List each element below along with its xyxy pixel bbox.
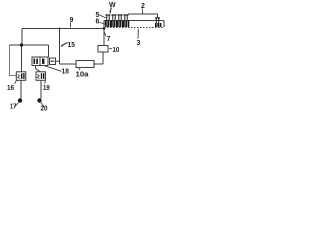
svg-text:20: 20 <box>41 106 48 113</box>
svg-text:7: 7 <box>107 36 111 43</box>
svg-text:3: 3 <box>137 40 141 47</box>
svg-text:9: 9 <box>70 17 74 24</box>
svg-text:10a: 10a <box>76 72 89 79</box>
svg-text:19: 19 <box>43 85 50 92</box>
svg-text:10: 10 <box>113 47 120 54</box>
svg-text:2: 2 <box>141 3 145 10</box>
svg-text:6: 6 <box>96 19 100 26</box>
svg-text:W: W <box>109 2 116 9</box>
svg-text:16: 16 <box>7 85 14 92</box>
svg-text:17: 17 <box>10 104 16 111</box>
svg-text:15: 15 <box>68 42 76 49</box>
svg-text:18: 18 <box>62 69 69 76</box>
